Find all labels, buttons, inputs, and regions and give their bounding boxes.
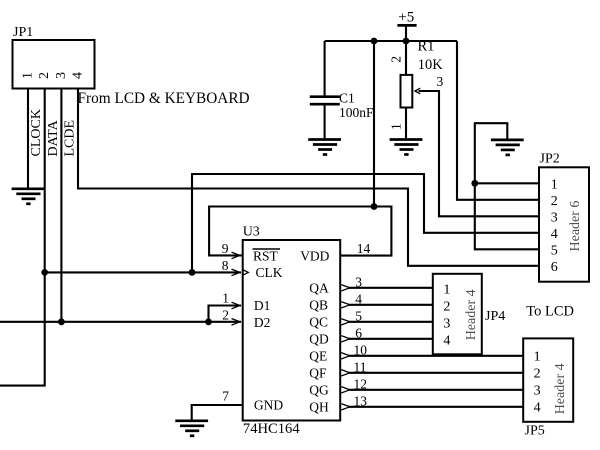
output arrow QF bbox=[341, 370, 350, 376]
svg-text:1: 1 bbox=[21, 72, 36, 79]
wire JP1 pin2 CLOCK down and off left edge bbox=[0, 89, 45, 386]
pin arrow CLK bbox=[232, 269, 240, 276]
clock chevron CLK bbox=[242, 270, 248, 276]
svg-text:100nF: 100nF bbox=[339, 105, 374, 120]
output arrow QD bbox=[341, 336, 350, 342]
svg-text:2: 2 bbox=[388, 56, 403, 63]
wire QB to JP4 pin2 bbox=[348, 304, 433, 306]
svg-text:1: 1 bbox=[222, 291, 229, 306]
connector JP2 bbox=[539, 152, 589, 282]
svg-text:QD: QD bbox=[309, 332, 329, 347]
svg-text:2: 2 bbox=[222, 307, 229, 322]
output arrow QC bbox=[341, 319, 350, 325]
junction dot DATA-D2 bbox=[58, 318, 65, 325]
junction dot CLK branch bbox=[189, 269, 196, 276]
svg-text:5: 5 bbox=[551, 244, 558, 259]
svg-text:2: 2 bbox=[534, 367, 541, 382]
wire QC to JP4 pin3 bbox=[348, 321, 433, 323]
wire QG to JP5 pin3 bbox=[348, 389, 523, 391]
svg-text:12: 12 bbox=[354, 376, 368, 391]
svg-text:QB: QB bbox=[309, 298, 328, 313]
junction dot bbox=[403, 38, 410, 45]
wire QE to JP5 pin1 bbox=[348, 355, 523, 357]
output arrow QE bbox=[341, 353, 350, 359]
svg-text:1: 1 bbox=[388, 123, 403, 130]
pin arrow D1 bbox=[232, 302, 240, 309]
ground under R1 bbox=[390, 140, 423, 155]
svg-text:Header 4: Header 4 bbox=[464, 289, 479, 340]
wire CLK net to U3 pin8 bbox=[45, 271, 241, 273]
svg-text:1: 1 bbox=[534, 350, 541, 365]
wire R1 wiper to JP2 pin3 bbox=[419, 91, 540, 216]
ground under C1 bbox=[308, 140, 341, 155]
svg-text:2: 2 bbox=[551, 194, 558, 209]
ground near JP2 bbox=[491, 140, 524, 155]
svg-text:1: 1 bbox=[443, 283, 450, 298]
svg-text:3: 3 bbox=[443, 317, 450, 332]
wire ground net to JP2 pins 1 and 5 bbox=[475, 123, 539, 249]
svg-text:7: 7 bbox=[222, 389, 229, 404]
svg-text:QA: QA bbox=[309, 281, 329, 296]
wire +5 rail right end to JP2 pin2 bbox=[457, 41, 539, 200]
connector JP5 bbox=[523, 338, 573, 438]
wire +5 rail bbox=[325, 40, 457, 42]
svg-text:To LCD: To LCD bbox=[526, 304, 574, 320]
svg-text:2: 2 bbox=[37, 72, 52, 79]
svg-text:DATA: DATA bbox=[46, 119, 61, 156]
svg-text:D1: D1 bbox=[254, 298, 271, 313]
wire U3 pin7 GND to ground bbox=[192, 405, 243, 421]
junction dot bbox=[471, 180, 478, 187]
svg-text:JP2: JP2 bbox=[540, 152, 560, 167]
svg-text:R1: R1 bbox=[418, 39, 435, 55]
wire QA to JP4 pin1 bbox=[348, 287, 433, 289]
svg-text:QE: QE bbox=[309, 349, 327, 364]
svg-text:JP4: JP4 bbox=[485, 309, 505, 324]
svg-text:QG: QG bbox=[309, 383, 329, 398]
svg-text:5: 5 bbox=[355, 308, 362, 323]
svg-text:3: 3 bbox=[437, 74, 444, 89]
IC U3 74HC164 bbox=[243, 225, 341, 437]
ground under JP1 bbox=[12, 189, 45, 204]
svg-text:JP1: JP1 bbox=[13, 25, 33, 40]
junction dot bbox=[371, 203, 378, 210]
output arrow QB bbox=[341, 302, 350, 308]
svg-text:3: 3 bbox=[355, 274, 362, 289]
power +5 symbol bbox=[397, 10, 416, 42]
svg-text:11: 11 bbox=[354, 359, 367, 374]
svg-text:VDD: VDD bbox=[300, 248, 329, 263]
svg-text:3: 3 bbox=[534, 384, 541, 399]
junction dot CLK-CLOCK bbox=[41, 269, 48, 276]
output arrow QA bbox=[341, 285, 350, 291]
svg-text:QC: QC bbox=[309, 315, 328, 330]
svg-text:QH: QH bbox=[309, 400, 329, 415]
wire +5 riser to RST loop bbox=[373, 41, 375, 207]
svg-text:CLOCK: CLOCK bbox=[29, 109, 44, 156]
wire U3 pin9 RST loop to VDD pin14 bbox=[209, 207, 391, 256]
wire JP2 pin1 stub bbox=[475, 182, 539, 184]
wire D1 link bbox=[209, 306, 242, 322]
svg-text:Header 4: Header 4 bbox=[553, 363, 568, 414]
wire QH to JP5 pin4 bbox=[348, 406, 523, 408]
capacitor C1 bbox=[310, 41, 374, 140]
svg-text:3: 3 bbox=[551, 211, 558, 226]
svg-text:+5: +5 bbox=[398, 10, 414, 26]
svg-text:1: 1 bbox=[551, 178, 558, 193]
resistor R1 potentiometer bbox=[388, 39, 443, 140]
svg-text:GND: GND bbox=[254, 398, 283, 413]
junction dot bbox=[371, 38, 378, 45]
ground under U3 bbox=[175, 421, 208, 436]
wire D2 net from left edge to U3 pin2 bbox=[0, 321, 241, 323]
svg-text:LCDE: LCDE bbox=[63, 120, 78, 157]
svg-text:QF: QF bbox=[309, 366, 327, 381]
svg-text:10K: 10K bbox=[418, 57, 444, 73]
svg-text:U3: U3 bbox=[243, 225, 260, 240]
svg-text:10: 10 bbox=[354, 342, 368, 357]
svg-text:4: 4 bbox=[443, 334, 450, 349]
svg-text:C1: C1 bbox=[339, 90, 355, 105]
junction dot D1-D2 bbox=[205, 318, 212, 325]
output arrow QG bbox=[341, 387, 350, 393]
svg-text:JP5: JP5 bbox=[525, 424, 545, 439]
svg-text:From LCD & KEYBOARD: From LCD & KEYBOARD bbox=[78, 90, 250, 107]
svg-text:Header 6: Header 6 bbox=[568, 201, 583, 252]
svg-text:13: 13 bbox=[354, 393, 368, 408]
pin arrow D2 bbox=[232, 319, 240, 326]
svg-text:CLK: CLK bbox=[256, 265, 283, 280]
svg-text:6: 6 bbox=[355, 325, 362, 340]
svg-text:RST: RST bbox=[253, 248, 279, 263]
wire QF to JP5 pin2 bbox=[348, 372, 523, 374]
svg-text:8: 8 bbox=[222, 258, 229, 273]
wire JP1 pin4 LCDE to JP2 pin6 bbox=[78, 89, 539, 266]
svg-text:14: 14 bbox=[357, 241, 371, 256]
svg-text:6: 6 bbox=[551, 260, 558, 275]
pin arrow RST bbox=[232, 252, 240, 259]
connector JP4 bbox=[433, 274, 505, 355]
svg-text:74HC164: 74HC164 bbox=[243, 421, 300, 437]
output arrow QH bbox=[341, 404, 350, 410]
wire QD to JP4 pin4 bbox=[348, 338, 433, 340]
svg-text:4: 4 bbox=[551, 227, 558, 242]
svg-text:4: 4 bbox=[355, 291, 362, 306]
svg-text:D2: D2 bbox=[254, 315, 271, 330]
svg-text:4: 4 bbox=[71, 72, 86, 79]
connector JP1 bbox=[13, 25, 95, 89]
svg-text:3: 3 bbox=[54, 72, 69, 79]
R1 wiper arrow bbox=[415, 88, 420, 94]
svg-text:4: 4 bbox=[534, 401, 541, 416]
svg-text:9: 9 bbox=[222, 241, 229, 256]
wire JP1 pin3 DATA down bbox=[60, 89, 62, 322]
wire JP1 pin1 to ground bbox=[27, 89, 29, 189]
svg-text:2: 2 bbox=[443, 300, 450, 315]
wire branch up to JP2 pin4 bbox=[192, 174, 539, 272]
